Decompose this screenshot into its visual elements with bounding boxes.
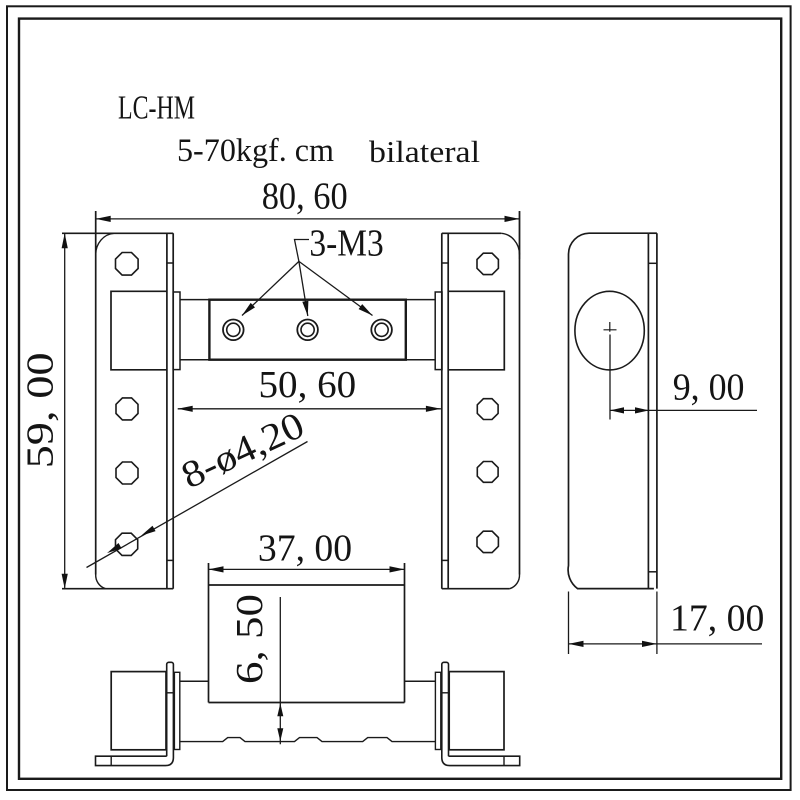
- left plate hole 4: [116, 533, 138, 555]
- right plate bottom edge: [442, 588, 510, 590]
- dimension 80,60 line: [96, 218, 520, 220]
- svg-text:bilateral: bilateral: [369, 134, 480, 169]
- left bracket block: [111, 672, 166, 750]
- right plate hole 2: [477, 399, 498, 420]
- dimension 80,60 right extension line: [519, 212, 521, 260]
- svg-text:5-70kgf. cm: 5-70kgf. cm: [177, 133, 334, 169]
- front view bottom bar wavy top edge: [180, 738, 436, 742]
- side view big hole: [575, 291, 644, 370]
- svg-text:59, 00: 59, 00: [20, 352, 62, 468]
- svg-text:LC-HM: LC-HM: [118, 90, 195, 127]
- left strip lower tick: [167, 559, 173, 561]
- right bracket L leg: [442, 662, 520, 765]
- crossbar band top edge: [180, 299, 435, 301]
- svg-text:80, 60: 80, 60: [262, 176, 348, 218]
- side view body outline: [568, 233, 654, 588]
- right plate top edge: [442, 232, 501, 234]
- left plate bottom-left corner arc: [96, 575, 106, 589]
- right plate inner left edge: [447, 233, 449, 588]
- side view strip upper tick: [648, 262, 657, 264]
- left bracket foot divider: [110, 756, 112, 765]
- crossbar hole 2 inner: [301, 323, 314, 336]
- dimension 17,00 right extension: [656, 592, 658, 655]
- side view strip lower tick: [648, 571, 657, 573]
- front view central block left edge: [208, 563, 210, 703]
- left plate top edge with 59,00 extension: [62, 232, 173, 234]
- side view strip right edge: [656, 233, 658, 588]
- 3-M3 leader to hole 2: [299, 261, 308, 316]
- right bracket foot divider: [503, 756, 505, 765]
- front view central block bottom edge: [209, 702, 405, 704]
- left plate side strip edge: [172, 233, 174, 588]
- right bracket leg tick: [442, 692, 449, 694]
- left plate inner right edge: [166, 233, 168, 588]
- dimension 37,00 line: [209, 568, 405, 570]
- right plate hole 4: [477, 531, 498, 552]
- crossbar hole 3 outer: [371, 320, 392, 341]
- dimension 17,00 left extension: [568, 592, 570, 655]
- left bracket L leg: [96, 662, 174, 765]
- 3-M3 leader to hole 3: [299, 261, 373, 315]
- left bracket strip: [174, 672, 179, 749]
- left plate hole 1: [116, 253, 139, 276]
- right plate side strip edge: [441, 233, 443, 588]
- right plate top-right corner arc: [501, 233, 519, 254]
- svg-text:17, 00: 17, 00: [670, 598, 764, 640]
- side view hole center extension line: [609, 335, 611, 420]
- crossbar hole 1 inner: [227, 323, 240, 336]
- right bracket strip: [435, 672, 440, 749]
- left plate bottom edge with 59,00 extension: [62, 588, 173, 590]
- dimension 9,00 line: [610, 409, 757, 411]
- front view left beam line: [180, 680, 209, 682]
- side view strip top cap: [648, 232, 657, 234]
- right bracket block: [449, 672, 504, 750]
- 3-M3 leader dash: [295, 240, 310, 262]
- left strip upper tick: [167, 262, 173, 264]
- left plate notch: [111, 291, 167, 370]
- svg-text:37, 00: 37, 00: [258, 527, 352, 569]
- right plate right edge: [519, 211, 521, 575]
- right plate hole 3: [477, 462, 498, 483]
- crossbar hole 2 outer: [297, 320, 318, 341]
- crossbar left tab: [173, 292, 180, 370]
- svg-text:9, 00: 9, 00: [673, 367, 745, 409]
- svg-text:50, 60: 50, 60: [259, 364, 357, 406]
- side view hole center mark: [604, 322, 617, 332]
- right plate bottom-right corner arc: [510, 575, 520, 589]
- crossbar right tab: [435, 292, 442, 370]
- right plate notch: [448, 291, 504, 370]
- right strip upper tick: [442, 262, 448, 264]
- left plate hole 2: [116, 398, 138, 420]
- right plate hole 1: [477, 253, 498, 274]
- crossbar band bottom edge: [180, 359, 435, 361]
- front view central block top edge: [209, 584, 405, 586]
- dimension 59,00 line: [64, 233, 66, 588]
- crossbar hole 1 outer: [223, 320, 244, 341]
- 3-M3 leader to hole 1: [242, 261, 299, 315]
- dimension 6,50 extension line: [279, 597, 281, 744]
- side view body right edge: [647, 233, 649, 588]
- svg-text:3-M3: 3-M3: [309, 222, 383, 264]
- left plate top-left corner arc: [96, 233, 114, 254]
- left plate hole 3: [116, 462, 138, 484]
- dimension 17,00 line: [569, 643, 763, 645]
- left bracket leg tick: [167, 692, 174, 694]
- right strip lower tick: [442, 559, 448, 561]
- front view right beam line: [405, 680, 436, 682]
- front view central block right edge: [404, 563, 406, 703]
- leader 8-diam-4,20 line: [87, 442, 308, 568]
- svg-text:6, 50: 6, 50: [229, 594, 271, 684]
- left plate left edge: [95, 211, 97, 575]
- dimension 50,60 line: [178, 408, 441, 410]
- crossbar central block: [209, 300, 405, 360]
- crossbar hole 3 inner: [375, 323, 388, 336]
